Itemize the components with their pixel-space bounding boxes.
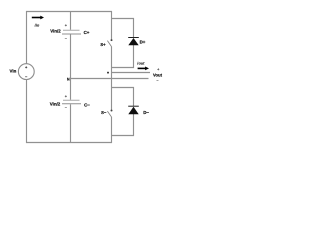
svg-text:C+: C+: [84, 30, 90, 35]
svg-text:+: +: [25, 65, 27, 69]
source Vin circle: [18, 64, 34, 80]
svg-text:D−: D−: [143, 110, 149, 115]
wire output node a: [112, 72, 151, 74]
svg-text:N: N: [67, 78, 70, 82]
wire top rail: [26, 11, 112, 13]
switch S- contact dot: [111, 110, 113, 112]
wire capacitor leg middle: [70, 35, 72, 100]
svg-text:C−: C−: [84, 103, 90, 108]
svg-text:Vin/2: Vin/2: [50, 28, 61, 33]
node a junction dot: [107, 72, 109, 74]
diode D+ cathode bar: [128, 37, 139, 39]
diode D- triangle: [128, 107, 138, 115]
switch S- blade: [107, 111, 111, 117]
wire capacitor leg lower: [70, 104, 72, 143]
wire D+ bottom stub: [112, 45, 134, 68]
wire capacitor leg upper: [70, 12, 72, 30]
svg-text:i out: i out: [137, 62, 145, 66]
switch S+ contact dot: [111, 39, 113, 41]
capacitor C+ plates: [62, 30, 81, 34]
wire bottom rail: [26, 142, 112, 144]
switch S+ blade: [107, 41, 111, 47]
diode D- cathode bar: [128, 105, 139, 107]
capacitor C- plates: [62, 100, 81, 104]
svg-text:Vin/2: Vin/2: [50, 101, 61, 106]
svg-text:i in: i in: [35, 24, 40, 28]
wire D+ top stub: [112, 19, 134, 38]
svg-text:−: −: [25, 75, 27, 79]
wire D- top stub: [112, 88, 134, 107]
arrow iout: [138, 67, 149, 71]
wire D- bottom stub: [112, 114, 134, 136]
wire left rail lower: [26, 80, 28, 144]
wire switch rail middle: [111, 47, 113, 110]
arrow iin: [32, 16, 44, 20]
svg-text:D+: D+: [140, 40, 146, 45]
wire switch rail upper: [111, 11, 113, 39]
wire left rail upper: [26, 11, 28, 64]
svg-text:Vin: Vin: [10, 69, 17, 74]
svg-text:S−: S−: [101, 110, 107, 115]
svg-text:Vout: Vout: [153, 72, 163, 77]
svg-text:S+: S+: [100, 42, 106, 47]
wire switch rail lower: [111, 117, 113, 143]
wire node N horizontal: [71, 78, 149, 80]
diode D+ triangle: [128, 38, 138, 45]
